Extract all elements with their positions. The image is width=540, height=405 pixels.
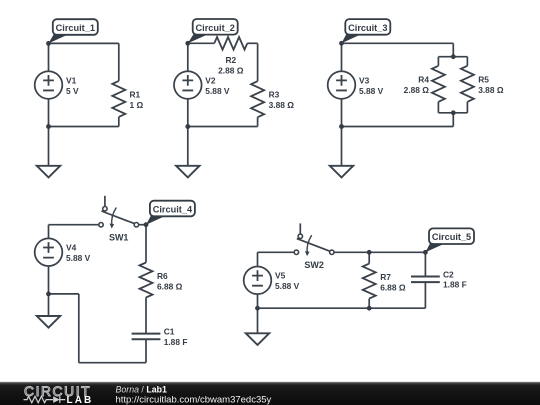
net label Circuit_3 (callout flag) [342,19,391,43]
svg-text:V4: V4 [66,243,77,253]
wire R5 top lead [466,57,468,66]
CircuitLab logo wordmark CIRCUIT [24,384,91,399]
node R7 top junction (junction dot) [367,250,372,255]
wire circuit2 right rail / R3 top lead [257,43,259,81]
wire wire return to V4 node [49,293,79,295]
wire V1 top lead [48,43,50,71]
wire circuit4 return rise [78,294,80,363]
svg-text:1 Ω: 1 Ω [130,100,144,110]
wire circuit5 ground lead [257,308,259,333]
footer bar [0,382,540,405]
svg-text:R7: R7 [380,272,391,282]
svg-text:Circuit_1: Circuit_1 [56,23,95,33]
wire V4 bottom lead / ground lead [48,266,50,316]
wire circuit1 bottom rail [49,126,119,128]
wire V4 top lead rise [48,225,50,239]
capacitor C1 (1.88 F) [132,327,188,347]
svg-text:6.88 Ω: 6.88 Ω [157,281,183,291]
svg-text:Circuit_2: Circuit_2 [196,23,235,33]
svg-text:5.88 V: 5.88 V [66,253,91,263]
svg-text:SW1: SW1 [109,233,129,243]
wire circuit5 top rail [334,251,425,253]
svg-text:2.88 Ω: 2.88 Ω [404,85,430,95]
net label Circuit_2 (callout flag) [188,19,238,43]
svg-text:R6: R6 [157,271,168,281]
wire R7 top lead [368,252,370,263]
node circuit4 label node (junction dot) [144,222,149,227]
voltage source V4 (5.88 V) [35,238,91,266]
svg-text:1.88 F: 1.88 F [443,280,467,290]
svg-text:2.88 Ω: 2.88 Ω [218,66,244,76]
wire circuit1 right rail upper / R1 top lead [118,43,120,81]
node circuit5 return junction (junction dot) [255,306,260,311]
node circuit3 top (label node) (junction dot) [339,41,344,46]
wire circuit3 top rail [342,42,454,44]
wire V3 bottom lead [341,99,343,127]
wire R5 bottom lead [466,102,468,113]
net label Circuit_1 (callout flag) [49,19,98,43]
svg-text:3.88 Ω: 3.88 Ω [478,85,504,95]
svg-text:C2: C2 [443,269,454,279]
svg-text:R3: R3 [269,90,280,100]
wire wire V5 to SW2 [258,251,295,253]
svg-text:5.88 V: 5.88 V [205,86,230,96]
ground [37,316,60,328]
svg-text:LAB: LAB [67,395,94,405]
svg-text:R5: R5 [478,75,489,85]
node circuit1 bottom junction (junction dot) [46,124,51,129]
wire C1 bottom lead [145,339,147,363]
wire V5 top lead rise [257,252,259,266]
svg-text:Circuit_3: Circuit_3 [348,23,387,33]
wire R7 bottom lead [368,299,370,309]
svg-text:C1: C1 [164,327,175,337]
svg-text:5 V: 5 V [66,86,79,96]
capacitor C2 (1.88 F) [411,269,467,289]
voltage source V5 (5.88 V) [244,267,300,295]
resistor R5 (3.88 Ohm) [461,66,504,102]
footer url [116,395,272,405]
resistor R3 (3.88 Ohm) [251,81,294,117]
resistor R4 (2.88 Ohm) [404,66,445,102]
svg-text:3.88 Ω: 3.88 Ω [269,100,295,110]
svg-text:R1: R1 [130,89,141,99]
svg-text:R4: R4 [418,75,429,85]
wire circuit2 top rail right of R2 [247,42,257,44]
svg-text:1.88 F: 1.88 F [164,337,188,347]
svg-text:5.88 V: 5.88 V [275,281,300,291]
svg-text:V1: V1 [66,75,77,85]
ground [176,166,199,178]
resistor R7 (6.88 Ohm) [363,264,406,299]
svg-text:R2: R2 [225,55,236,65]
resistor R6 (6.88 Ohm) [140,263,183,298]
svg-text:6.88 Ω: 6.88 Ω [380,282,406,292]
wire R4 top lead [437,57,439,66]
wire C2 top lead [424,252,426,276]
wire wire V4 to SW1 [49,224,99,226]
svg-text:5.88 V: 5.88 V [359,86,384,96]
resistor R1 (1 Ohm) [112,81,143,117]
wire circuit2 ground lead [187,127,189,166]
logo resistor zigzag and diode glyph [24,396,66,403]
svg-text:SW2: SW2 [304,260,324,270]
footer title: Borna / Lab1 [116,384,167,394]
wire R1 bottom lead [118,117,120,127]
node circuit3 bottom junction (junction dot) [339,124,344,129]
wire V2 bottom lead [187,99,189,127]
ground [246,333,269,345]
wire circuit2 bottom rail [188,126,258,128]
svg-text:V3: V3 [359,75,370,85]
wire R6 top lead [145,225,147,263]
wire circuit1 top rail [49,42,119,44]
node circuit2 bottom junction (junction dot) [185,124,190,129]
ground [330,166,353,178]
node circuit2 top (label node) (junction dot) [185,41,190,46]
voltage source V3 (5.88 V) [328,71,384,99]
resistor R2 (2.88 Ohm, horizontal) [214,37,247,76]
voltage source V2 (5.88 V) [174,71,230,99]
wire circuit4 bottom return rail [79,362,146,364]
wire V1 bottom lead [48,99,50,127]
wire circuit3 ground lead [341,127,343,166]
switch SW2 (SPDT toggle, open) [294,223,334,270]
wire circuit5 bottom rail [258,307,426,309]
node circuit1 top (label node) (junction dot) [46,41,51,46]
wire circuit3 bottom rail [342,126,454,128]
ground [37,166,60,178]
svg-text:V2: V2 [205,75,216,85]
svg-text:Circuit_4: Circuit_4 [153,205,193,215]
wire R3 bottom lead [257,117,259,126]
wire circuit2 top rail left of R2 [188,42,215,44]
logo wordmark LAB [67,395,94,405]
node parallel pair top junction (junction dot) [451,54,456,59]
svg-text:Borna / Lab1: Borna / Lab1 [116,384,167,394]
node circuit5 label node (junction dot) [423,250,428,255]
wire circuit1 ground lead [48,127,50,166]
net label Circuit_5 (callout flag) [425,228,474,252]
wire V3 top lead [341,43,343,71]
wire V5 bottom lead [257,280,259,308]
svg-text:Circuit_5: Circuit_5 [432,232,471,242]
wire R4 bottom lead [437,102,439,113]
wire V2 top lead [187,43,189,71]
svg-text:V5: V5 [275,271,286,281]
wire circuit3 drop to parallel pair [452,43,454,56]
wire parallel bottom bus [438,112,467,114]
switch SW1 (SPDT toggle, open) [99,196,139,243]
wire parallel top bus [438,56,467,58]
node circuit4 return junction (junction dot) [46,292,51,297]
node parallel pair bottom junction (junction dot) [451,110,456,115]
net label Circuit_4 (callout flag) [146,201,195,225]
voltage source V1 (5 V) [35,71,79,99]
wire wire SW1 to node [139,224,146,226]
node R7 bottom junction (junction dot) [367,306,372,311]
wire circuit3 rise from parallel pair [452,113,454,127]
wire C2 bottom lead [424,282,426,308]
wire wire R6 to C1 [145,298,147,334]
svg-text:http://circuitlab.com/cbwam37e: http://circuitlab.com/cbwam37edc35y [116,395,272,405]
